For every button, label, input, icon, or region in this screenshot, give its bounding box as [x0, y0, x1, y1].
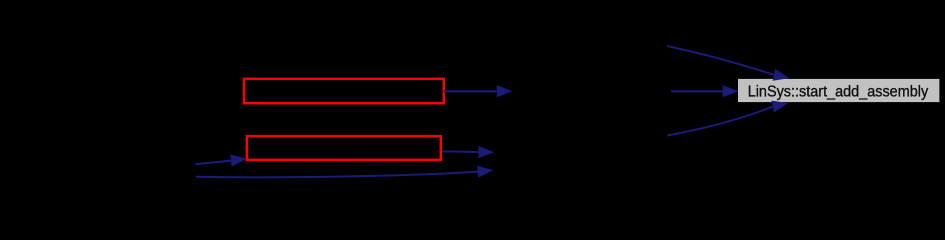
- edge E3: bottom node to LinSys::start_add_assembly: [667, 101, 788, 136]
- node box 1 (red highlighted caller, text hidden on black): [244, 79, 444, 103]
- node box 2 (red highlighted caller, text hidden on black): [247, 136, 441, 160]
- svg-text:LinSys::start_add_assembly: LinSys::start_add_assembly: [748, 84, 929, 101]
- node LinSys::start_add_assembly (current node, grey fill): [738, 79, 939, 102]
- edge E7: hidden left node bypass curve to hidden lower-middle node: [196, 166, 493, 178]
- edge E6: red box 2 to hidden lower-middle node: [442, 146, 494, 158]
- edge E5: hidden left node to red box 2: [195, 154, 247, 166]
- edge E2: middle node to LinSys::start_add_assembly: [671, 85, 738, 97]
- edge E4: red box 1 to hidden middle node: [444, 85, 513, 97]
- edge E1: top node to LinSys::start_add_assembly: [667, 46, 789, 81]
